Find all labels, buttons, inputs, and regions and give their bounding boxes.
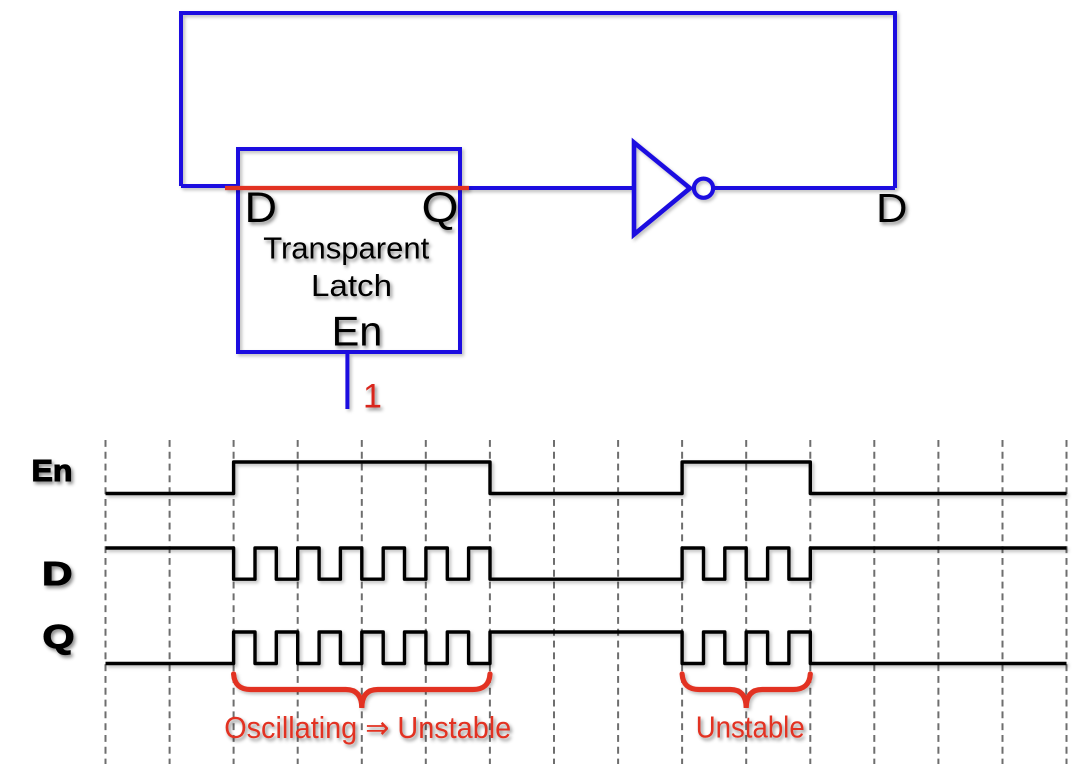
- svg-text:Latch: Latch: [311, 268, 392, 303]
- svg-text:Q: Q: [43, 618, 75, 655]
- svg-text:En: En: [332, 307, 383, 354]
- svg-text:Unstable: Unstable: [696, 711, 805, 745]
- svg-text:Transparent: Transparent: [263, 231, 429, 266]
- svg-text:1: 1: [363, 378, 382, 416]
- svg-text:Oscillating ⇒ Unstable: Oscillating ⇒ Unstable: [224, 711, 511, 745]
- svg-text:D: D: [876, 185, 908, 231]
- svg-text:En: En: [32, 453, 73, 488]
- svg-text:D: D: [245, 184, 278, 232]
- svg-text:D: D: [42, 555, 73, 592]
- svg-text:Q: Q: [422, 184, 459, 232]
